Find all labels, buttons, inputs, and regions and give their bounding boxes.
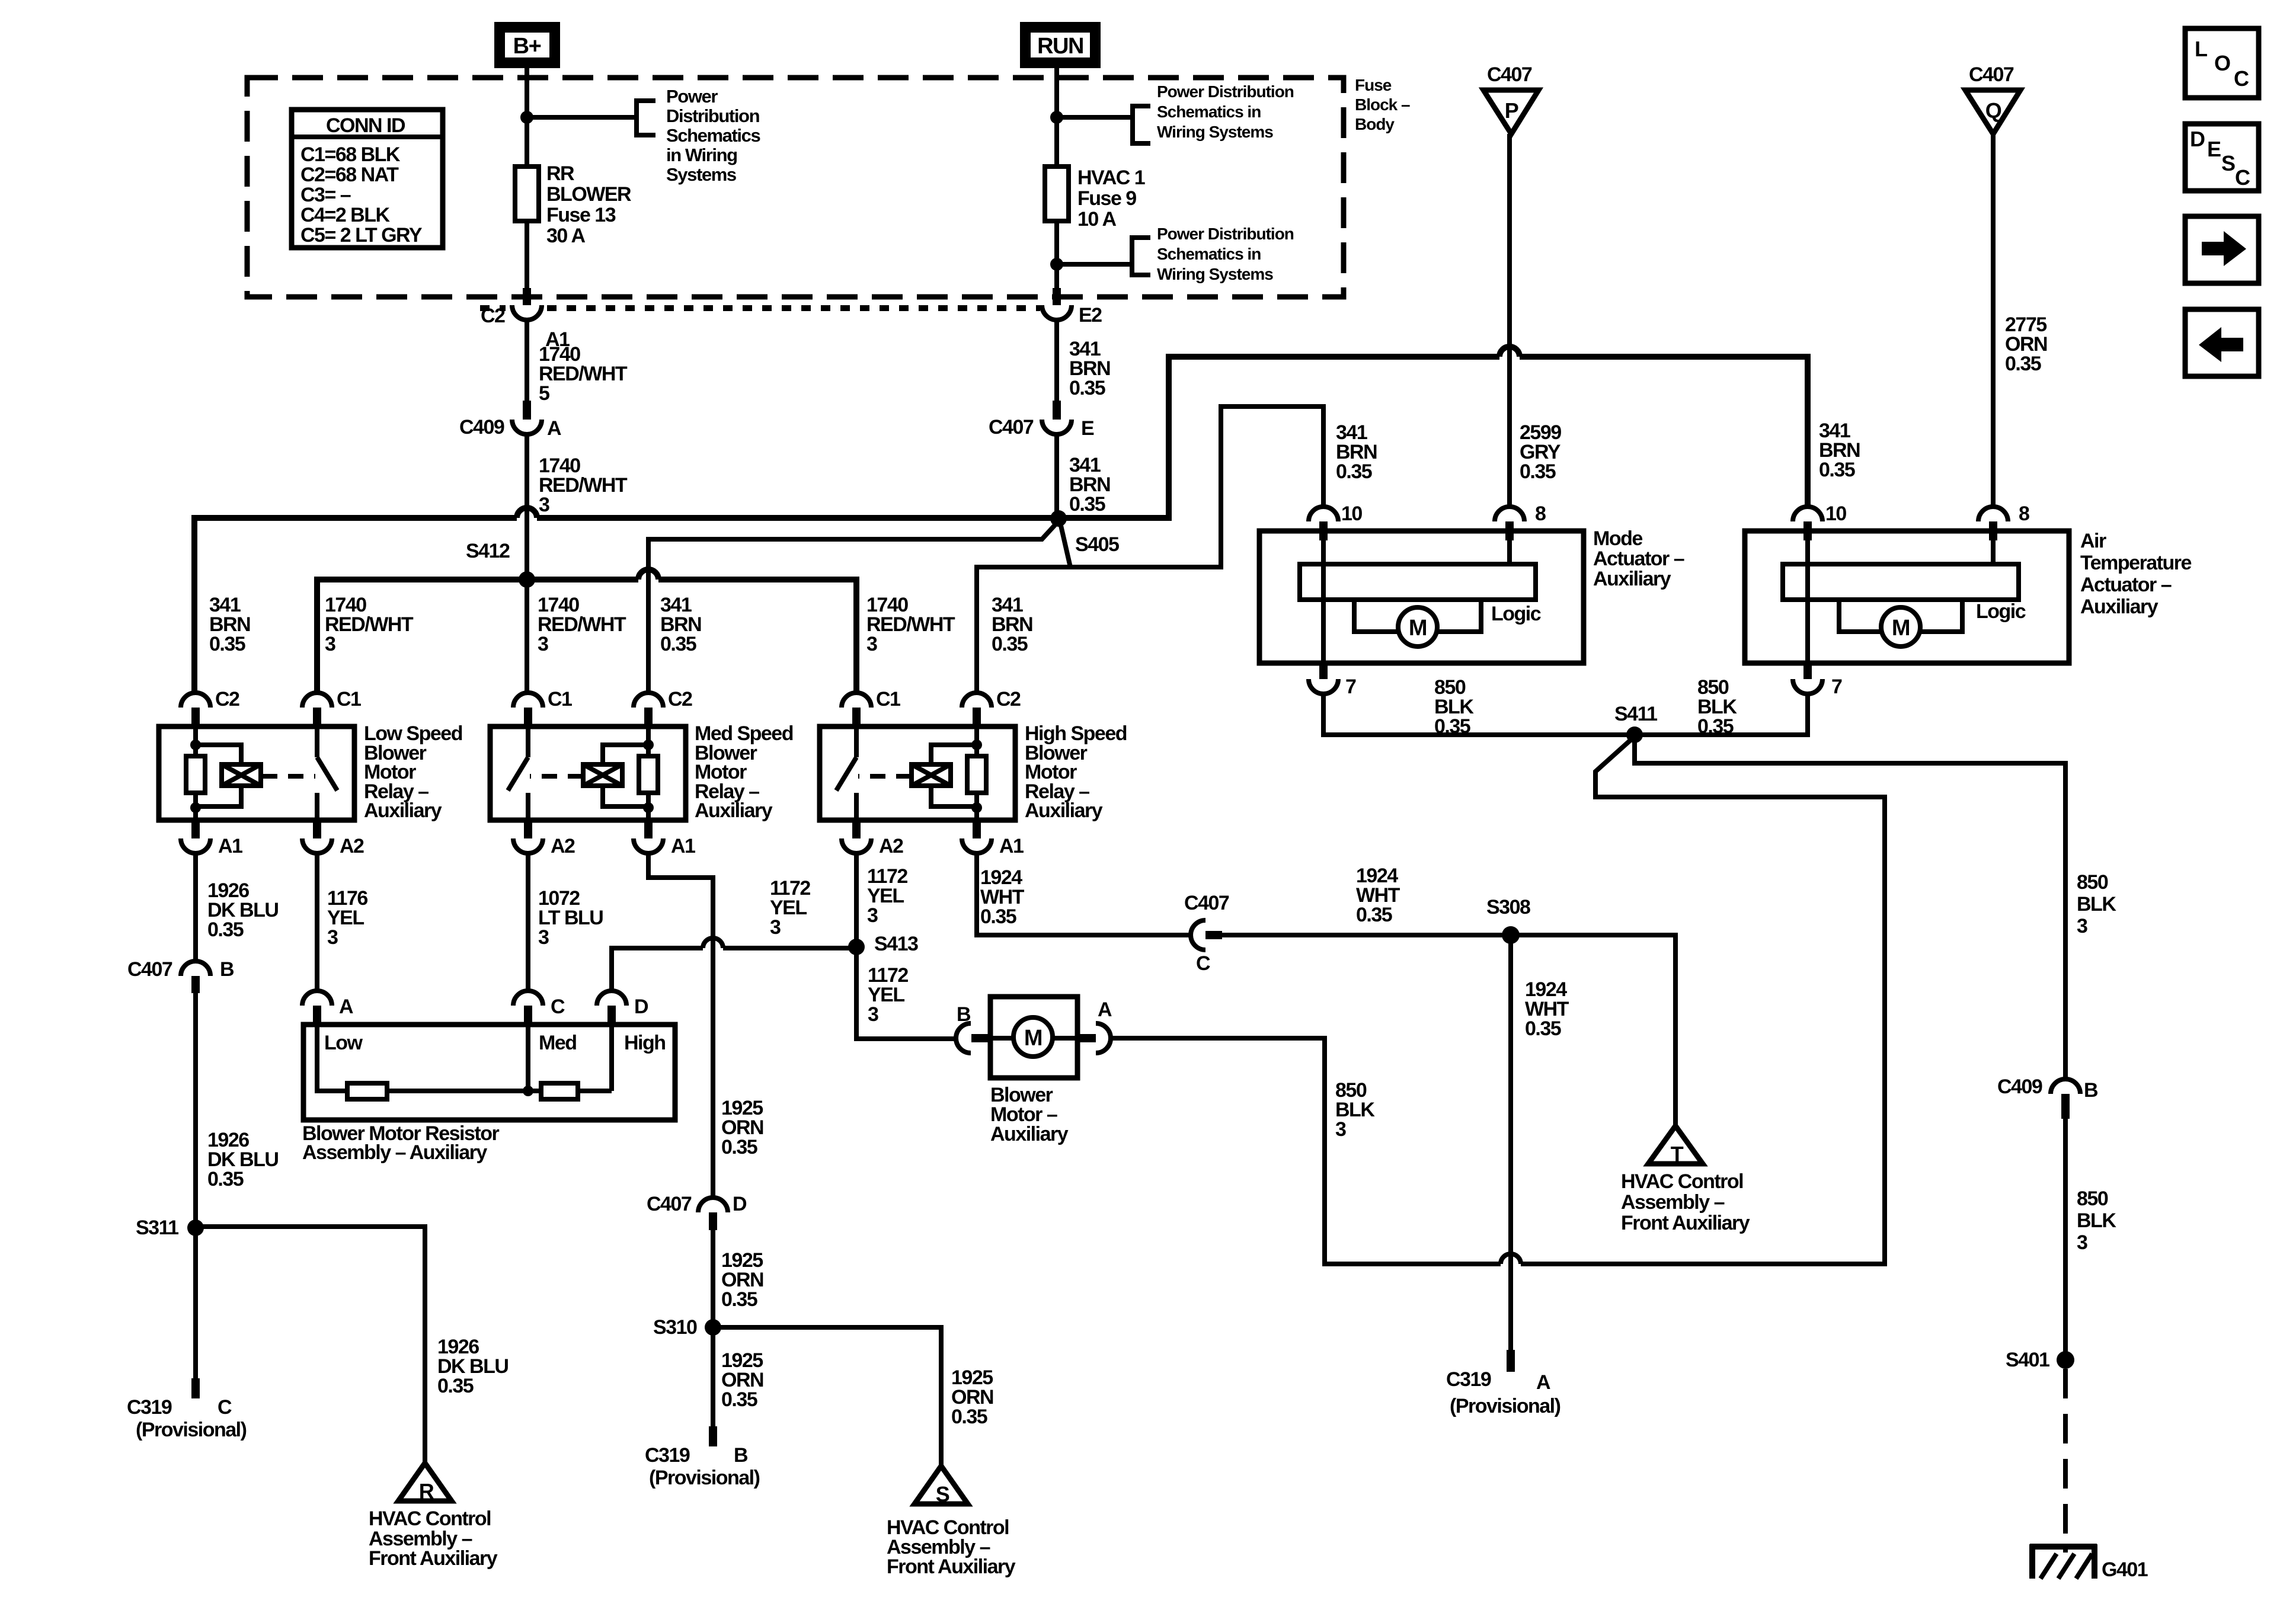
wire Med A1 to C407 D: [648, 853, 713, 1198]
wire S308 down to C319 A: [1508, 935, 1513, 1350]
svg-text:RR: RR: [546, 162, 574, 185]
resistor assembly pin A bar: [313, 1006, 321, 1025]
resistor assembly pin D cup: [597, 991, 626, 1006]
node S311: [187, 1219, 204, 1236]
svg-text:3: 3: [2077, 915, 2087, 937]
svg-text:E: E: [1081, 417, 1094, 440]
actuator U1 pin 10 internal wire: [1321, 538, 1326, 663]
connector C407 E cup: [1042, 420, 1072, 434]
svg-text:Schematics: Schematics: [666, 125, 760, 146]
label 1740 RED/WHT 3 (High C1): [866, 594, 955, 655]
svg-text:C319: C319: [127, 1396, 172, 1419]
svg-text:Fuse 13: Fuse 13: [546, 204, 616, 226]
relay K2 Med Speed Blower Motor Relay - Auxiliary: box: [490, 726, 686, 820]
svg-text:C409: C409: [459, 416, 504, 438]
label 1740 RED/WHT 3 (Low C1): [325, 594, 414, 655]
label 1926 DK BLU 0.35 (lower): [207, 1129, 278, 1190]
relay K2 coil bottom node: [643, 802, 654, 813]
wire C2 to C409: [525, 320, 529, 401]
svg-text:High: High: [624, 1032, 666, 1054]
svg-text:Auxiliary: Auxiliary: [1593, 568, 1671, 590]
svg-text:M: M: [1892, 616, 1910, 641]
svg-text:T: T: [1671, 1142, 1684, 1166]
svg-text:B: B: [220, 958, 234, 981]
svg-text:0.35: 0.35: [1069, 493, 1105, 516]
connector C407 Q triangle: [1965, 90, 2020, 134]
svg-text:Front Auxiliary: Front Auxiliary: [1621, 1212, 1750, 1234]
blower motor B cup: [956, 1023, 971, 1053]
B+ power symbol: [500, 27, 555, 63]
label 1740 RED/WHT 3 (Med C1): [538, 594, 626, 655]
svg-text:A1: A1: [999, 835, 1024, 857]
svg-text:A2: A2: [551, 835, 575, 857]
svg-text:B: B: [2084, 1079, 2098, 1102]
wire S405 right to Mode/Air feed riser: [1059, 357, 1499, 518]
svg-text:BLK: BLK: [2077, 1209, 2116, 1232]
relay K1 switch blade: [317, 757, 337, 790]
svg-text:B: B: [957, 1003, 971, 1026]
label 1925 ORN 0.35 (above C407 D): [721, 1097, 763, 1158]
svg-text:3: 3: [539, 494, 549, 516]
connector C319 A pin bar: [1507, 1350, 1515, 1372]
connector C409 B cup: [2051, 1079, 2080, 1094]
label C319 A (Provisional): [1446, 1368, 1560, 1417]
relay K3 coil top node: [971, 740, 982, 750]
label 341 BRN 0.35 (Med C2): [660, 594, 701, 655]
svg-text:0.35: 0.35: [992, 633, 1028, 655]
label Power Distribution Schematics in Wiring Systems (lower right): [1157, 225, 1294, 283]
wire High A2 to S413 to blower B: [856, 853, 956, 1039]
label Power Distribution Schematics in Wiring Systems (upper right): [1157, 82, 1294, 141]
svg-text:E2: E2: [1079, 304, 1102, 327]
wire node to bracket: [1057, 262, 1132, 267]
resistor internal node: [523, 1086, 533, 1096]
resistor assembly box: [303, 1025, 675, 1120]
labels Low Med High: [324, 1032, 666, 1054]
wire C407 B to S311 and C319 C: [193, 993, 198, 1378]
wire Low A2 to resistor A: [315, 853, 319, 991]
node S310: [705, 1319, 721, 1336]
label 1925 ORN 0.35 (above S310): [721, 1249, 763, 1311]
blower motor A cup: [1096, 1023, 1111, 1053]
node on RUN wire upper: [1050, 111, 1063, 124]
actuator U2 pin 7 bar: [1803, 663, 1812, 679]
wire E2 to C407 E: [1054, 320, 1059, 401]
svg-text:Schematics in: Schematics in: [1157, 103, 1261, 121]
relay K2 pin C2 bar: [644, 708, 653, 726]
svg-text:C319: C319: [645, 1444, 690, 1467]
svg-text:Actuator –: Actuator –: [2080, 574, 2172, 596]
svg-text:Auxiliary: Auxiliary: [1025, 799, 1103, 822]
node S308: [1502, 926, 1520, 944]
fuse RR BLOWER Fuse 13 30 A: [515, 167, 539, 221]
relay K3 linkage dashes: [858, 774, 912, 779]
svg-text:0.35: 0.35: [1356, 904, 1392, 926]
svg-text:D: D: [2190, 127, 2205, 151]
svg-text:S310: S310: [653, 1316, 697, 1339]
svg-text:Assembly – Auxiliary: Assembly – Auxiliary: [302, 1141, 487, 1164]
label 1926 DK BLU 0.35 (branch): [437, 1336, 508, 1397]
label 850 BLK 3 (right upper): [2077, 871, 2116, 937]
bracket symbol right lower: [1132, 238, 1150, 275]
svg-text:C409: C409: [1997, 1076, 2042, 1098]
label 341 BRN 0.35 (below C407 E): [1069, 454, 1110, 516]
svg-text:7: 7: [1831, 676, 1842, 698]
label 1925 ORN 0.35 (branch to S): [951, 1366, 993, 1428]
blower motor box: [990, 997, 1077, 1078]
node S405: [1050, 510, 1067, 527]
svg-text:3: 3: [2077, 1231, 2087, 1254]
relay K1 coil X-box: [222, 764, 261, 786]
wire C407 E to S405: [1054, 434, 1059, 518]
connector E2 cup: [1042, 305, 1072, 320]
label C319 C (Provisional): [127, 1396, 247, 1441]
svg-text:Logic: Logic: [1976, 600, 2026, 623]
actuator U1 box: [1259, 531, 1584, 663]
label 341 BRN 0.35 (Mode pin 10): [1336, 421, 1377, 483]
bracket symbol right upper: [1133, 106, 1150, 143]
wire fuse to connector E2: [1054, 218, 1059, 289]
svg-text:B+: B+: [513, 34, 541, 59]
actuator U2 pin 10 internal wire: [1805, 538, 1810, 663]
svg-text:Auxiliary: Auxiliary: [364, 799, 442, 822]
svg-text:C1: C1: [548, 688, 572, 710]
label 1176 YEL 3: [327, 887, 367, 949]
relay K3 pin A2 cup: [842, 838, 871, 853]
svg-text:A: A: [1536, 1371, 1550, 1394]
triangle T HVAC Control Assembly - Front Auxiliary: [1648, 1126, 1703, 1166]
label 1740 RED/WHT 3: [539, 454, 628, 516]
svg-text:P: P: [1505, 98, 1518, 123]
svg-text:A1: A1: [218, 835, 242, 857]
label 1172 YEL 3 (High A2): [867, 865, 907, 927]
actuator U2 motor M: [1881, 607, 1920, 646]
svg-text:E: E: [2207, 137, 2221, 161]
svg-text:0.35: 0.35: [721, 1136, 757, 1158]
relay K3 pin C1 bar: [852, 708, 861, 726]
svg-text:8: 8: [1535, 502, 1546, 525]
wire S401 dashed to ground: [2063, 1369, 2068, 1553]
relay K2 coil feed wire: [646, 726, 651, 756]
wire High A1 to C407 C: [977, 853, 1191, 935]
relay K1 coil bottom node: [190, 802, 201, 813]
resistor assembly pin A cup: [302, 991, 332, 1006]
wire S411 diagonal to blower ground run: [1521, 741, 1885, 1264]
ground G401: [2030, 1544, 2097, 1579]
relay K3 coil bottom wire: [974, 793, 979, 820]
wire C407 D to S310 and C319 B: [711, 1230, 715, 1426]
svg-text:7: 7: [1345, 676, 1356, 698]
bracket symbol left: [637, 101, 655, 135]
svg-text:850: 850: [2077, 871, 2108, 894]
svg-text:Auxiliary: Auxiliary: [695, 799, 773, 822]
svg-text:A2: A2: [879, 835, 903, 857]
CONN ID table: [292, 110, 443, 248]
resistor element R1: [347, 1083, 387, 1099]
wire to Air Temp pin 10: [1520, 357, 1808, 507]
wire B+ down to fuse: [525, 63, 529, 169]
node S413: [848, 939, 865, 955]
svg-text:0.35: 0.35: [207, 1168, 244, 1190]
relay K2 coil bottom wire: [646, 793, 651, 820]
svg-text:S401: S401: [2006, 1349, 2049, 1371]
svg-text:C: C: [551, 996, 565, 1018]
blower motor M: [1013, 1017, 1053, 1057]
wire S405 diagonal to lower branch: [1061, 526, 1070, 567]
label 2599 GRY 0.35: [1520, 421, 1561, 483]
RUN power symbol: [1025, 27, 1095, 63]
svg-text:3: 3: [770, 916, 781, 939]
label 1924 WHT 0.35 (below S308): [1525, 978, 1569, 1040]
label 1924 WHT 0.35 (left of S308): [1356, 865, 1400, 926]
label RR BLOWER Fuse 13 30 A: [546, 162, 631, 247]
relay K1 pin A2 bar: [313, 820, 321, 838]
relay K1 pin A1 cup: [181, 838, 210, 853]
svg-text:Wiring Systems: Wiring Systems: [1157, 123, 1273, 141]
svg-text:O: O: [2214, 51, 2230, 75]
wire node to bracket: [527, 115, 637, 120]
svg-text:0.35: 0.35: [437, 1375, 474, 1397]
connector C2 pin A1: pin bar: [523, 288, 531, 305]
actuator U1 pin 7 bar: [1319, 663, 1328, 679]
label HVAC Control Assembly - Front Auxiliary (S): [887, 1516, 1016, 1578]
svg-text:0.35: 0.35: [660, 633, 696, 655]
svg-text:C407: C407: [1969, 63, 2014, 86]
svg-text:BLK: BLK: [2077, 893, 2116, 916]
actuator U2 box: [1745, 531, 2069, 663]
svg-text:0.35: 0.35: [951, 1406, 987, 1428]
svg-text:3: 3: [538, 633, 548, 655]
svg-text:HVAC Control: HVAC Control: [369, 1507, 491, 1530]
svg-text:C: C: [1196, 952, 1210, 975]
svg-text:A1: A1: [671, 835, 695, 857]
relay K2 pin A1 cup: [634, 838, 663, 853]
svg-text:0.35: 0.35: [2005, 353, 2041, 375]
actuator U1 pin 8 cup: [1495, 507, 1524, 521]
svg-text:Systems: Systems: [666, 164, 736, 185]
svg-text:0.35: 0.35: [1520, 460, 1556, 483]
relay K3 pin C1 cup: [842, 693, 871, 708]
connector separator dotted line: [480, 305, 1040, 311]
connector E2 pin bar: [1053, 288, 1061, 305]
svg-text:S: S: [936, 1482, 949, 1506]
relay K2 pin A1 bar: [644, 820, 653, 838]
connector C409 cup: [512, 420, 542, 434]
triangle R HVAC Control Assembly - Front Auxiliary: [398, 1463, 452, 1503]
label 1924 WHT 0.35 (High A1): [980, 866, 1025, 928]
svg-text:A: A: [547, 417, 561, 440]
relay K1 pin C1 bar: [313, 708, 321, 726]
relay K1 pin A1 bar: [191, 820, 200, 838]
svg-text:Auxiliary: Auxiliary: [2080, 596, 2159, 618]
svg-text:RED/WHT: RED/WHT: [325, 613, 414, 636]
label Blower Motor - Auxiliary: [990, 1084, 1069, 1145]
arrow right box: [2185, 216, 2259, 283]
svg-text:C407: C407: [989, 416, 1034, 438]
connector C407 C cup: [1191, 920, 1205, 950]
svg-text:0.35: 0.35: [721, 1388, 757, 1411]
resistor assembly internal wires: [317, 1025, 612, 1091]
relay K3 pin C2 cup: [962, 693, 992, 708]
relay K1 coil top node: [190, 740, 201, 750]
svg-text:S311: S311: [136, 1217, 178, 1239]
relay K1 linkage dashes: [262, 774, 315, 779]
blower motor A bar: [1077, 1034, 1096, 1042]
connector C319 B pin bar: [709, 1426, 717, 1446]
actuator U1 motor loop: [1354, 598, 1481, 632]
svg-text:C407: C407: [127, 958, 172, 981]
label 341 BRN 0.35 (above C407 E): [1069, 338, 1110, 399]
blower motor internal wire: [990, 1036, 1077, 1041]
svg-text:(Provisional): (Provisional): [1450, 1395, 1560, 1417]
svg-text:0.35: 0.35: [1336, 460, 1372, 483]
svg-text:0.35: 0.35: [980, 905, 1016, 928]
actuator U1 motor M: [1398, 607, 1437, 646]
svg-text:S412: S412: [466, 540, 510, 562]
svg-text:RUN: RUN: [1037, 34, 1083, 59]
svg-text:in Wiring: in Wiring: [666, 145, 737, 165]
label Blower Motor Resistor Assembly - Auxiliary: [302, 1122, 499, 1164]
actuator U1 Mode Actuator - Auxiliary: pin 10 cup: [1309, 507, 1338, 521]
label 1072 LT BLU 3: [538, 887, 603, 949]
svg-text:G401: G401: [2102, 1558, 2148, 1581]
relay K3 coil resistor: [967, 756, 986, 793]
svg-text:(Provisional): (Provisional): [136, 1419, 247, 1441]
relay K2 linkage dashes: [530, 774, 583, 779]
svg-text:RED/WHT: RED/WHT: [539, 474, 628, 497]
actuator U2 pin 8 cup: [1978, 507, 2008, 521]
svg-text:Front Auxiliary: Front Auxiliary: [887, 1555, 1016, 1578]
label High Speed Blower Motor Relay - Auxiliary: [1025, 722, 1127, 822]
wire RUN down to fuse: [1054, 63, 1059, 169]
svg-text:Mode: Mode: [1593, 527, 1642, 550]
svg-text:3: 3: [867, 904, 878, 927]
label Air Temperature Actuator - Auxiliary: [2080, 530, 2192, 618]
label 341 BRN 0.35 (Low C2): [209, 594, 250, 655]
svg-text:5: 5: [539, 382, 549, 405]
svg-text:C5= 2 LT GRY: C5= 2 LT GRY: [300, 224, 423, 247]
svg-text:3: 3: [1335, 1118, 1346, 1141]
wire C407 Q to Air Temp pin 8: [1991, 134, 1996, 507]
svg-text:C2: C2: [481, 305, 505, 327]
relay K3 switch lower stub: [854, 793, 859, 820]
svg-text:3: 3: [325, 633, 335, 655]
svg-text:A: A: [339, 996, 353, 1018]
relay K3 pin A1 bar: [973, 820, 981, 838]
node S412: [519, 571, 535, 588]
label C319 B (Provisional): [645, 1444, 760, 1489]
svg-text:Air: Air: [2080, 530, 2106, 552]
svg-text:C407: C407: [1487, 63, 1532, 86]
label 341 BRN 0.35 (Air pin 10): [1819, 420, 1860, 481]
svg-text:C407: C407: [647, 1193, 692, 1215]
actuator U2 motor loop: [1839, 598, 1962, 632]
svg-text:C2=68 NAT: C2=68 NAT: [300, 164, 399, 186]
hop over C407 P wire: [1499, 347, 1520, 357]
svg-text:M: M: [1409, 616, 1427, 641]
relay K1 pin C2 bar: [191, 708, 200, 726]
svg-text:Front Auxiliary: Front Auxiliary: [369, 1547, 498, 1570]
relay K1 coil resistor: [186, 756, 205, 793]
connector C2 cup: [512, 305, 542, 320]
svg-text:Power Distribution: Power Distribution: [1157, 82, 1294, 101]
svg-text:Body: Body: [1355, 115, 1395, 133]
relay K1 pin A2 cup: [302, 838, 332, 853]
svg-text:C: C: [2234, 66, 2249, 91]
blower motor B bar: [971, 1034, 990, 1042]
wire S310 to HVAC control S: [713, 1327, 941, 1466]
svg-text:HVAC Control: HVAC Control: [1621, 1170, 1743, 1193]
relay K2 coil top node: [643, 740, 654, 750]
connector C409 B bar: [2061, 1094, 2070, 1119]
connector C407 C bar: [1205, 931, 1222, 939]
relay K2 switch lower stub: [526, 793, 530, 820]
hop over S308 wire: [1501, 1254, 1521, 1264]
svg-text:10: 10: [1825, 502, 1846, 525]
svg-text:S: S: [2221, 151, 2235, 175]
svg-text:Power Distribution: Power Distribution: [1157, 225, 1294, 243]
resistor assembly pin D bar: [607, 1006, 616, 1025]
relay K2 pin A2 bar: [524, 820, 532, 838]
label HVAC 1 Fuse 9 10 A: [1077, 167, 1145, 231]
fuse block - body dashed box: [247, 78, 1344, 297]
connector C407 B bar: [191, 976, 200, 993]
relay K2 coil resistor: [639, 756, 658, 793]
connector C407 pin E: pin bar: [1053, 401, 1061, 420]
svg-text:S411: S411: [1614, 703, 1657, 725]
svg-text:0.35: 0.35: [209, 633, 245, 655]
label 1925 ORN 0.35 (below S310): [721, 1349, 763, 1411]
svg-text:Auxiliary: Auxiliary: [990, 1123, 1069, 1145]
relay K1 coil feed wire: [193, 726, 198, 756]
label 850 BLK 3 (right lower): [2077, 1188, 2116, 1254]
label Low Speed Blower Motor Relay - Auxiliary: [364, 722, 462, 822]
actuator U1 pin 10 bar: [1319, 521, 1328, 540]
svg-text:10: 10: [1341, 502, 1362, 525]
connector C409 pin A: pin bar: [523, 401, 531, 420]
wire S411 stub to C409 B: [1635, 735, 2065, 1080]
svg-text:C407: C407: [1184, 892, 1229, 914]
svg-text:C2: C2: [215, 688, 239, 710]
svg-text:10 A: 10 A: [1077, 208, 1117, 231]
relay K1 pin C1 cup: [302, 693, 332, 708]
relay K2 switch fixed stub: [526, 726, 530, 757]
svg-text:Schematics in: Schematics in: [1157, 245, 1261, 263]
relay K3 switch fixed stub: [854, 726, 859, 757]
label 850 BLK 0.35 (Air pin 7): [1697, 676, 1737, 738]
actuator U2 inner bar: [1783, 564, 2019, 600]
actuator U1 pin 8 internal wire: [1507, 538, 1512, 566]
node S411: [1626, 726, 1643, 743]
svg-text:C319: C319: [1446, 1368, 1491, 1391]
relay K3 switch blade: [836, 757, 856, 790]
svg-text:L: L: [2195, 37, 2207, 61]
svg-text:0.35: 0.35: [721, 1288, 757, 1311]
svg-text:850: 850: [2077, 1188, 2108, 1210]
wire fuse to connector C2: [525, 218, 529, 289]
svg-text:D: D: [733, 1193, 747, 1215]
actuator U2 pin 8 bar: [1989, 521, 1997, 540]
actuator U1 pin 7 cup: [1309, 679, 1338, 694]
node on RUN wire lower: [1050, 258, 1063, 271]
label 850 BLK 3 (blower ground): [1335, 1079, 1375, 1141]
svg-text:3: 3: [866, 633, 877, 655]
wire C407 P to Mode pin 8: [1507, 134, 1512, 507]
relay K2 pin A2 cup: [513, 838, 543, 853]
svg-text:Med: Med: [539, 1032, 577, 1054]
svg-text:3: 3: [868, 1003, 878, 1026]
wire S405 diagonal to Med C2 branch: [648, 525, 1055, 693]
